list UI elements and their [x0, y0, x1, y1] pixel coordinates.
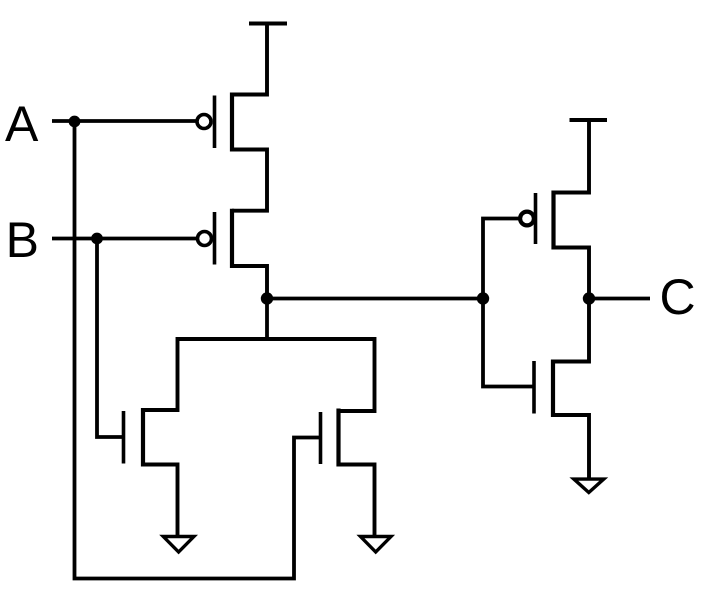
ground GND2	[356, 535, 395, 555]
power VDD bar (NAND)	[249, 22, 287, 26]
node: A junction	[69, 116, 81, 128]
wire: VDD stem into Q3 drain	[554, 120, 590, 193]
wire: B net down to Q4 gate	[97, 239, 124, 438]
transistor Q4 (NMOS, input B)	[124, 408, 144, 467]
transistor Q5 (NMOS, input A)	[321, 409, 339, 467]
transistor Q2 (PMOS, input B)	[198, 209, 233, 268]
svg-text:B: B	[6, 212, 39, 268]
wire: Q1 source to Q2 drain	[232, 150, 267, 211]
node: B junction	[91, 233, 103, 245]
wire: VDD stem into Q1 drain	[232, 24, 267, 95]
wire: node down to NMOS rail	[265, 299, 269, 340]
transistor Q6 (NMOS, inverter)	[534, 360, 553, 418]
wire: Q6 source down to GND3	[553, 415, 589, 479]
wire: Q2 source to output node	[232, 266, 267, 299]
wire: Q6 drain up to output node	[553, 299, 589, 362]
svg-text:C: C	[660, 269, 696, 325]
wire: output to C	[589, 297, 650, 301]
wire: input B horizontal	[52, 237, 196, 241]
wire: A net down, along bottom, up to Q5 gate	[75, 121, 321, 579]
wire: Q3 source to output node	[554, 248, 590, 299]
power VDD bar (inverter)	[570, 118, 608, 122]
node: NAND output junction	[261, 292, 273, 304]
ground GND3	[569, 477, 608, 494]
svg-text:A: A	[5, 96, 39, 152]
wire: Q4 source down to GND1	[143, 465, 178, 537]
node: inverter output junction	[583, 292, 595, 304]
node: inverter input junction	[477, 292, 489, 304]
wire: NMOS rail with both drain drops and stubs	[143, 339, 375, 411]
wire: node to inverter input	[267, 297, 483, 301]
wire: input A horizontal	[52, 119, 196, 123]
wire: Q5 source down to GND2	[339, 465, 375, 537]
wire: inverter input vertical with both gate taps	[483, 219, 534, 387]
ground GND1	[159, 535, 198, 555]
transistor Q3 (PMOS, inverter)	[520, 191, 553, 250]
transistor Q1 (PMOS, input A)	[197, 93, 232, 152]
